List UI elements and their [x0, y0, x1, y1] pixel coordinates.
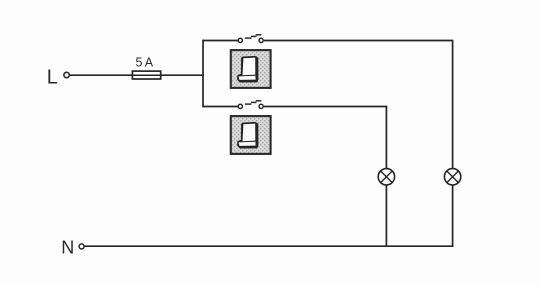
switch S1: [238, 35, 263, 43]
wire top branch right segment: [264, 40, 454, 42]
wire branch2 right segment: [264, 106, 387, 108]
wire junction vertical: [202, 40, 204, 108]
svg-text:L: L: [47, 67, 58, 89]
terminal N: [79, 244, 84, 249]
wire L terminal to fuse: [70, 74, 133, 76]
switch S2: [238, 101, 263, 109]
wire bottom N run: [84, 245, 453, 247]
fuse F1: [132, 71, 160, 79]
lamp LP1: [378, 169, 394, 185]
lamp LP2: [444, 169, 460, 185]
wire top branch left segment: [203, 40, 239, 42]
terminal L: [64, 72, 69, 77]
switch box SW1: [231, 50, 271, 88]
wire lamp1 vertical: [385, 107, 387, 247]
svg-text:5A: 5A: [135, 56, 155, 70]
wire right vertical: [452, 41, 454, 247]
wire fuse to junction node: [161, 74, 204, 76]
switch box SW2: [231, 116, 271, 154]
wire branch2 left segment: [203, 106, 239, 108]
svg-text:N: N: [61, 237, 74, 257]
